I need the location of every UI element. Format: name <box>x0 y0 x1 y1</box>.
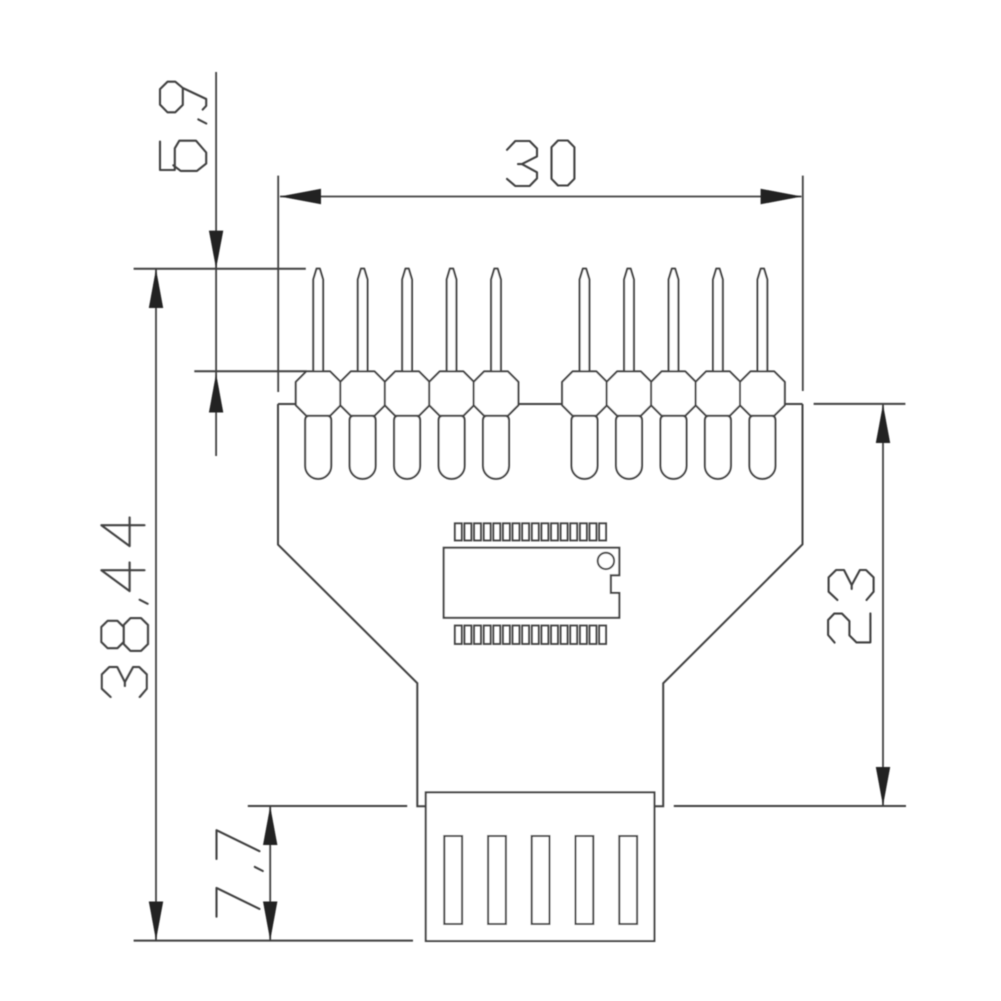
pin 9 contact <box>705 416 731 479</box>
dimension 5.9 upper arrowhead (down) <box>209 231 223 269</box>
dimension 30 line <box>280 196 802 198</box>
dimension text 30 <box>507 141 574 187</box>
op-amp U1 chip body <box>444 548 620 618</box>
body left outline <box>278 404 426 806</box>
dimension 30 left arrowhead <box>280 189 321 205</box>
U1 top lead row (16 pins) <box>455 523 606 540</box>
pin 3 housing block <box>385 371 430 415</box>
body right outline <box>655 404 803 806</box>
dimension 7.7 bottom arrowhead (down) <box>263 902 277 941</box>
pin 6 contact <box>572 416 598 479</box>
U1 bottom lead row (16 pins) <box>455 626 606 645</box>
pin 9 needle <box>713 269 723 372</box>
dimension 5.9 line <box>215 72 217 456</box>
pin 10 contact <box>749 416 775 479</box>
extension line: body top right (23 upper reference) <box>814 403 906 405</box>
extension line: top of pins (5.9/38.44 reference) <box>134 268 306 270</box>
pin 2 needle <box>358 269 368 372</box>
pin 10 housing block <box>740 371 785 415</box>
pin 1 needle <box>313 269 323 372</box>
pin 7 contact <box>616 416 642 479</box>
pin 4 housing block <box>429 371 474 415</box>
body top edge <box>278 403 803 405</box>
extension line: bottom datum (38.44/7.7 reference) <box>134 940 413 942</box>
pin 10 needle <box>758 269 768 372</box>
pin 9 housing block <box>696 371 741 415</box>
dimension text 23 <box>828 570 874 643</box>
dimension 7.7 line <box>269 806 271 941</box>
dimension 30 right arrowhead <box>761 189 802 205</box>
pin 2 contact <box>350 416 376 479</box>
extension line: body bottom left (7.7 upper reference) <box>248 805 407 807</box>
pin 2 housing block <box>340 371 385 415</box>
pin 4 contact <box>439 416 465 479</box>
pin 3 contact <box>394 416 420 479</box>
dimension text 7.7 <box>217 830 263 917</box>
USB contact slot 2 <box>488 836 506 924</box>
dimension 38.44 bottom arrowhead (down) <box>149 902 163 941</box>
dimension 30 right extension line <box>802 176 804 391</box>
dimension 38.44 top arrowhead (up) <box>149 269 163 308</box>
dimension 5.9 lower arrowhead (up) <box>209 374 223 413</box>
pin 1 housing block <box>296 371 341 415</box>
dimension text 5.9 <box>160 82 206 171</box>
pin 7 needle <box>624 269 634 372</box>
pin 6 housing block <box>562 371 607 415</box>
extension line: top of pin housings (5.9 lower reference) <box>194 370 306 372</box>
USB contact slot 1 <box>444 836 462 924</box>
USB contact slot 3 <box>532 836 550 924</box>
dimension 38.44 line <box>155 269 157 941</box>
USB connector J1 shell <box>426 792 655 941</box>
dimension text 38.44 <box>101 517 148 697</box>
pin 7 housing block <box>607 371 652 415</box>
USB contact slot 5 <box>619 836 637 924</box>
U1 pin-1 index circle <box>598 553 614 569</box>
pin 8 contact <box>661 416 687 479</box>
pin 6 needle <box>580 269 590 372</box>
dimension 23 bottom arrowhead (down) <box>876 767 890 806</box>
dimension 30 left extension line <box>277 176 279 392</box>
USB contact slot 4 <box>576 836 594 924</box>
pin 8 housing block <box>651 371 696 415</box>
dimension 23 line <box>882 404 884 806</box>
pin 4 needle <box>447 269 457 372</box>
pin 3 needle <box>402 269 412 372</box>
extension line: body bottom right (23 lower reference) <box>674 805 906 807</box>
pin 5 contact <box>483 416 509 479</box>
pin 1 contact <box>305 416 331 479</box>
dimension 7.7 top arrowhead (up) <box>263 806 277 845</box>
pin 5 housing block <box>474 371 519 415</box>
pin 5 needle <box>491 269 501 372</box>
dimension 23 top arrowhead (up) <box>876 404 890 443</box>
pin 8 needle <box>669 269 679 372</box>
